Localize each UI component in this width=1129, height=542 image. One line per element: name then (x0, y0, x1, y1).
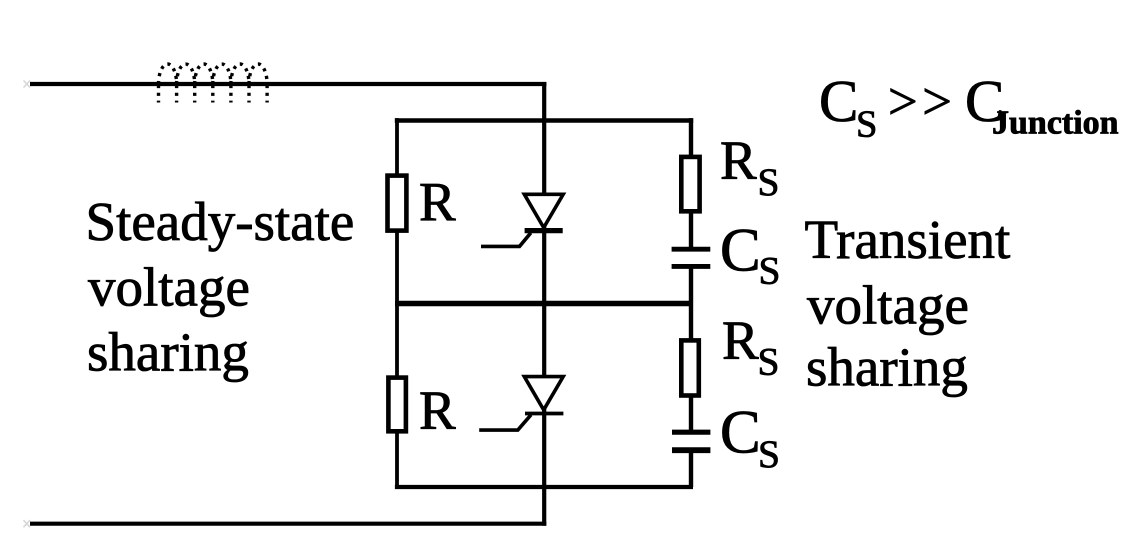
svg-text:Junction: Junction (992, 105, 1119, 142)
wire: main vertical thyristor-string line (542, 82, 546, 526)
resistor R2 (lower left) (388, 378, 406, 432)
capacitor CS2 top plate (672, 430, 710, 435)
resistor R1 (upper left) (388, 176, 407, 231)
thyristor Q2 gate lead (479, 415, 531, 430)
svg-text:voltage: voltage (807, 275, 969, 336)
svg-text:R: R (720, 130, 757, 191)
formula: CS >> CJunction (819, 68, 1119, 146)
inductor L1 (dotted coil on top bus) (159, 64, 268, 103)
wire: top bus from left edge (30, 82, 546, 86)
svg-text:C: C (720, 399, 761, 466)
wire: right branch vertical upper segment (to CS1 top plate) (689, 118, 693, 249)
svg-text:S: S (856, 104, 877, 146)
wire: bottom bus to left edge (30, 522, 546, 526)
thyristor Q2 cathode bar (525, 412, 563, 416)
wire: right branch vertical lower segment (CS2 to bottom rail) (689, 450, 693, 487)
label: Steady-state voltage sharing (86, 191, 355, 383)
thyristor Q1 triangle (anode top) (524, 194, 563, 227)
svg-text:S: S (758, 160, 780, 204)
svg-text:R: R (722, 310, 759, 371)
svg-text:R: R (419, 380, 456, 441)
thyristor Q1 gate lead (481, 233, 531, 247)
node: faint handle mark at bottom-left wire end (24, 520, 31, 527)
svg-text:R: R (419, 172, 456, 233)
svg-text:S: S (758, 339, 780, 383)
svg-text:C: C (720, 217, 761, 284)
wire: right branch vertical middle segment (CS1 to CS2) (689, 266, 693, 432)
thyristor Q1 cathode bar (525, 228, 563, 233)
svg-text:S: S (758, 432, 780, 476)
capacitor CS2 bottom plate (672, 447, 710, 453)
resistor RS1 (upper right snubber) (681, 157, 699, 211)
wire: snubber network top rail (395, 118, 693, 123)
svg-text:Steady-state: Steady-state (86, 191, 355, 252)
svg-text:>: > (922, 73, 952, 131)
svg-text:>: > (888, 73, 918, 131)
wire: midpoint rail (395, 301, 691, 307)
thyristor Q2 triangle (524, 377, 563, 410)
svg-text:voltage: voltage (88, 257, 250, 318)
svg-text:C: C (819, 68, 858, 134)
capacitor CS1 top plate (672, 247, 711, 252)
capacitor CS1 bottom plate (672, 264, 711, 269)
wire: bottom rail (395, 485, 693, 489)
label: Transient voltage sharing (805, 209, 1011, 398)
svg-text:sharing: sharing (87, 322, 249, 383)
svg-text:sharing: sharing (806, 337, 968, 398)
wire: left branch vertical (R string) (395, 118, 399, 489)
node: faint handle mark at top-left wire end (24, 81, 31, 88)
svg-text:S: S (759, 249, 781, 293)
svg-text:Transient: Transient (805, 209, 1011, 270)
resistor RS2 (lower right snubber) (681, 340, 699, 395)
